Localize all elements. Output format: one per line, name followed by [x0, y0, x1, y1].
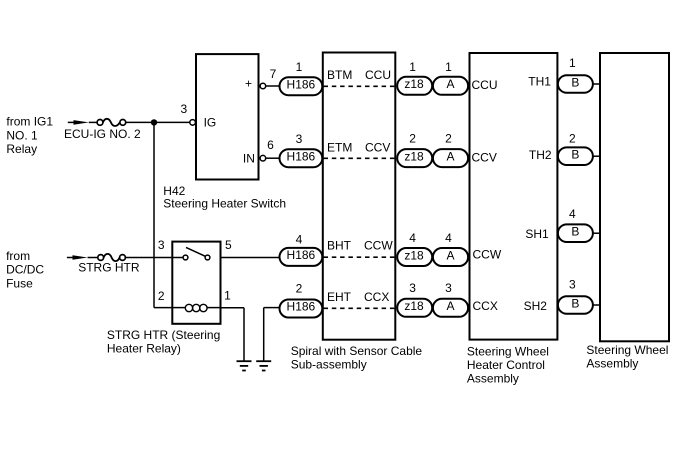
- svg-text:7: 7: [270, 67, 277, 81]
- svg-text:CCW: CCW: [473, 247, 502, 261]
- svg-text:B: B: [571, 76, 579, 90]
- svg-text:Relay: Relay: [6, 142, 37, 156]
- svg-text:z18: z18: [404, 149, 424, 163]
- svg-text:2: 2: [296, 281, 303, 295]
- svg-text:z18: z18: [404, 299, 424, 313]
- svg-text:ECU-IG NO. 2: ECU-IG NO. 2: [64, 127, 141, 141]
- svg-text:6: 6: [267, 138, 274, 152]
- svg-text:BTM: BTM: [327, 68, 352, 82]
- svg-text:4: 4: [409, 231, 416, 245]
- svg-text:Assembly: Assembly: [586, 356, 638, 370]
- svg-text:Fuse: Fuse: [6, 277, 33, 291]
- svg-text:CCX: CCX: [473, 299, 498, 313]
- svg-text:3: 3: [158, 238, 165, 252]
- svg-text:Spiral with Sensor Cable: Spiral with Sensor Cable: [291, 344, 423, 358]
- svg-text:A: A: [446, 149, 454, 163]
- svg-text:CCX: CCX: [364, 290, 389, 304]
- svg-text:Steering Heater Switch: Steering Heater Switch: [163, 197, 286, 211]
- svg-text:A: A: [446, 299, 454, 313]
- svg-text:CCU: CCU: [365, 68, 391, 82]
- svg-text:3: 3: [445, 281, 452, 295]
- svg-text:z18: z18: [404, 77, 424, 91]
- svg-text:1: 1: [296, 60, 303, 74]
- svg-text:IG: IG: [204, 116, 217, 130]
- svg-text:2: 2: [569, 131, 576, 145]
- svg-text:DC/DC: DC/DC: [6, 262, 44, 276]
- svg-text:A: A: [446, 248, 454, 262]
- svg-text:H186: H186: [287, 300, 316, 314]
- svg-text:Steering Wheel: Steering Wheel: [467, 345, 549, 359]
- svg-text:4: 4: [569, 207, 576, 221]
- svg-text:TH1: TH1: [528, 75, 551, 89]
- svg-text:3: 3: [569, 277, 576, 291]
- svg-text:5: 5: [225, 238, 232, 252]
- svg-text:from IG1: from IG1: [6, 114, 53, 128]
- svg-text:B: B: [571, 297, 579, 311]
- svg-text:STRG HTR (Steering: STRG HTR (Steering: [107, 328, 220, 342]
- svg-text:3: 3: [409, 281, 416, 295]
- svg-text:from: from: [6, 249, 30, 263]
- svg-text:1: 1: [445, 60, 452, 74]
- svg-text:+: +: [245, 77, 252, 91]
- svg-text:3: 3: [296, 132, 303, 146]
- svg-text:2: 2: [158, 289, 165, 303]
- svg-text:1: 1: [569, 56, 576, 70]
- svg-text:ETM: ETM: [327, 140, 352, 154]
- svg-text:IN: IN: [243, 152, 255, 166]
- svg-text:1: 1: [224, 289, 231, 303]
- svg-text:EHT: EHT: [327, 290, 352, 304]
- svg-text:2: 2: [445, 131, 452, 145]
- svg-text:2: 2: [409, 131, 416, 145]
- svg-text:CCW: CCW: [364, 239, 393, 253]
- svg-text:Heater Control: Heater Control: [467, 358, 545, 372]
- svg-text:Steering Wheel: Steering Wheel: [586, 343, 668, 357]
- svg-text:z18: z18: [404, 248, 424, 262]
- svg-text:Heater Relay): Heater Relay): [107, 341, 181, 355]
- svg-text:B: B: [571, 148, 579, 162]
- svg-text:CCV: CCV: [472, 150, 497, 164]
- svg-text:3: 3: [180, 102, 187, 116]
- svg-text:TH2: TH2: [529, 148, 552, 162]
- svg-text:CCU: CCU: [472, 78, 498, 92]
- svg-text:NO. 1: NO. 1: [6, 128, 38, 142]
- svg-text:Assembly: Assembly: [467, 372, 519, 386]
- svg-text:4: 4: [445, 231, 452, 245]
- svg-text:H186: H186: [287, 248, 316, 262]
- svg-text:STRG HTR: STRG HTR: [78, 261, 140, 275]
- svg-text:Sub-assembly: Sub-assembly: [291, 357, 367, 371]
- svg-text:A: A: [446, 77, 454, 91]
- svg-text:BHT: BHT: [327, 239, 352, 253]
- svg-text:SH2: SH2: [524, 299, 548, 313]
- svg-text:B: B: [571, 225, 579, 239]
- svg-text:1: 1: [409, 60, 416, 74]
- svg-text:H186: H186: [287, 149, 316, 163]
- svg-text:H186: H186: [287, 77, 316, 91]
- svg-text:4: 4: [296, 233, 303, 247]
- svg-text:SH1: SH1: [525, 227, 549, 241]
- svg-text:CCV: CCV: [365, 140, 390, 154]
